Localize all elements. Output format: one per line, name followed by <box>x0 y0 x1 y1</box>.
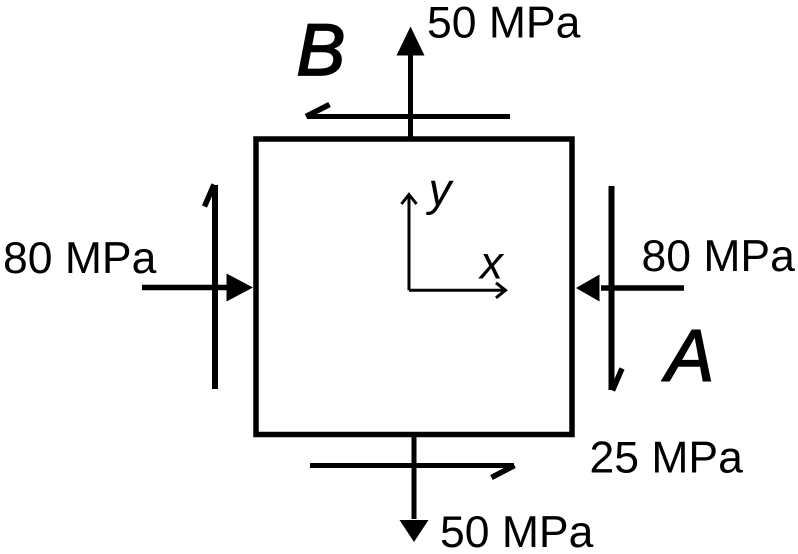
top shear stress arrow (left-pointing harpoon) <box>306 105 510 117</box>
svg-text:50 MPa: 50 MPa <box>440 508 594 554</box>
right shear stress arrow (down-pointing harpoon) <box>612 186 623 391</box>
top normal stress arrow (50 MPa, up) <box>397 27 425 140</box>
bottom shear stress arrow (right-pointing harpoon) <box>310 466 515 478</box>
left normal stress arrow (80 MPa, right-pointing) <box>142 274 253 302</box>
svg-text:y: y <box>426 164 455 216</box>
x-axis <box>409 289 504 292</box>
svg-text:B: B <box>297 10 346 91</box>
bottom normal stress arrow (50 MPa, down) <box>400 436 429 542</box>
stress element square <box>256 139 572 435</box>
svg-text:25 MPa: 25 MPa <box>590 434 744 483</box>
y-axis <box>408 196 411 290</box>
svg-text:x: x <box>478 237 505 289</box>
svg-text:A: A <box>662 316 715 397</box>
left shear stress arrow (up-pointing harpoon) <box>205 185 216 390</box>
right normal stress arrow (80 MPa, left-pointing) <box>576 275 684 302</box>
svg-text:80 MPa: 80 MPa <box>642 232 796 281</box>
coordinate axes <box>402 195 506 298</box>
svg-text:50 MPa: 50 MPa <box>427 0 581 48</box>
svg-text:80 MPa: 80 MPa <box>3 234 157 283</box>
